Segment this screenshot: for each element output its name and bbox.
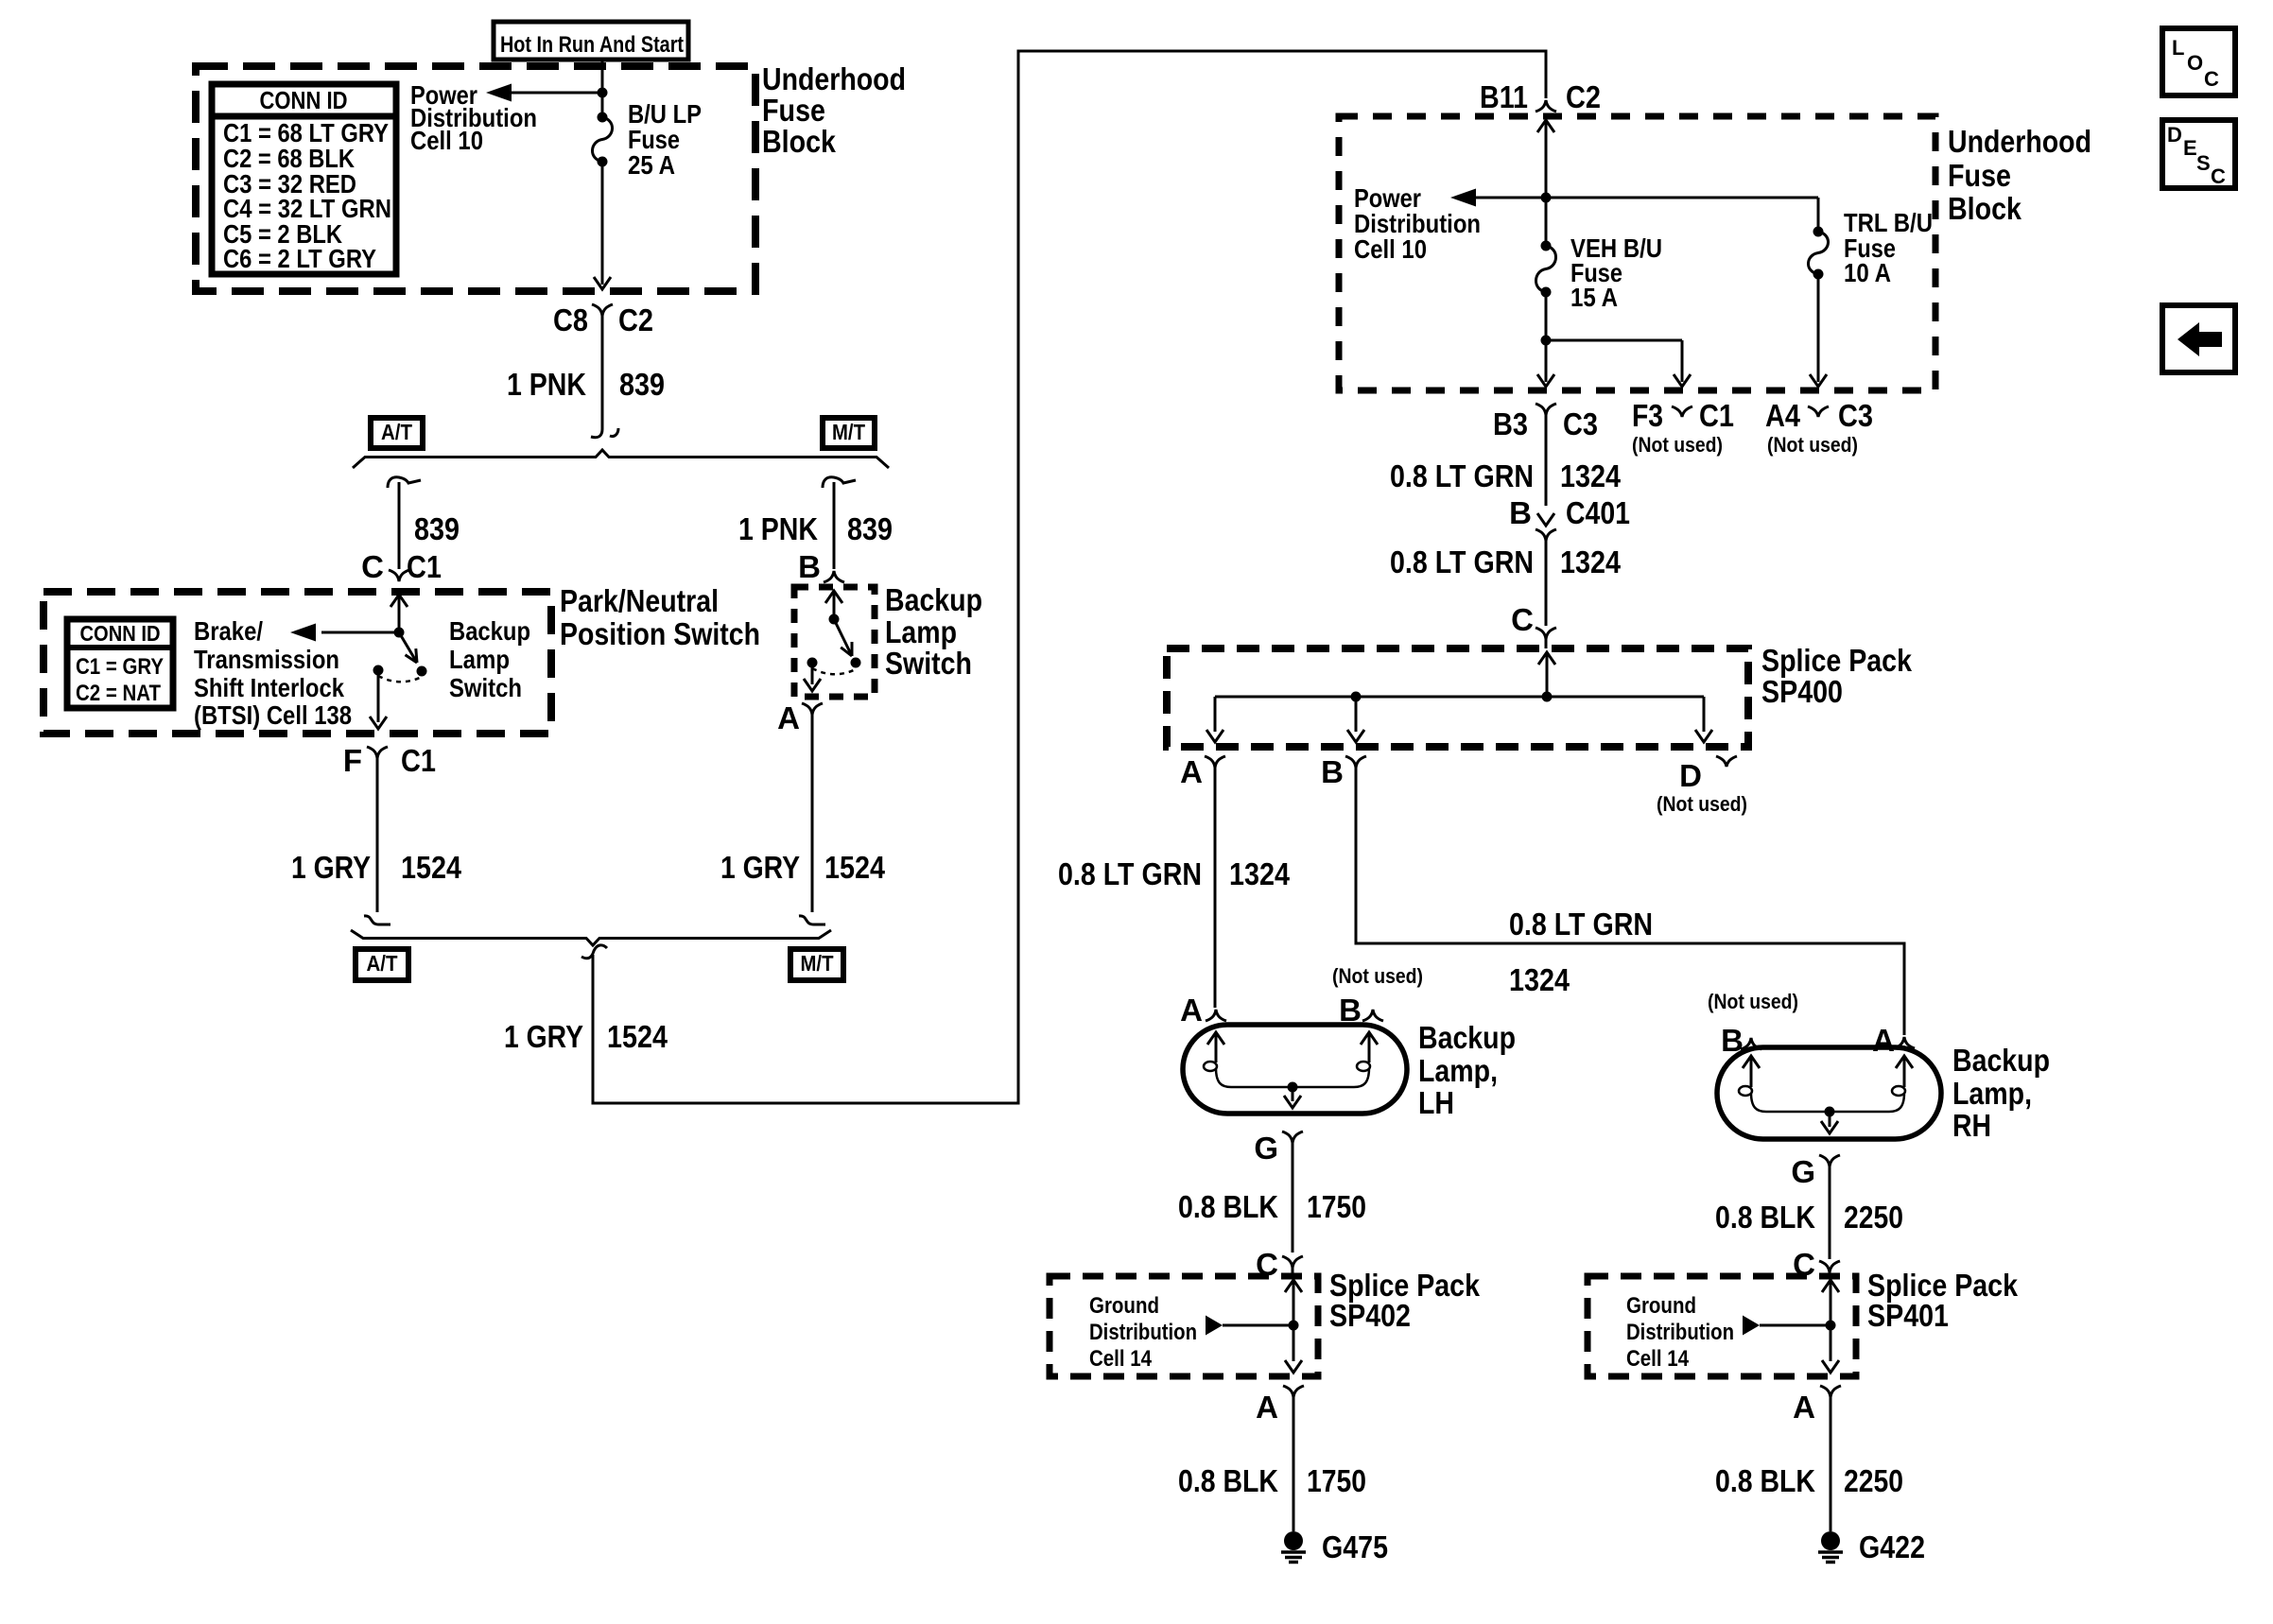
svg-text:SP401: SP401 <box>1867 1298 1949 1333</box>
svg-text:(Not used): (Not used) <box>1708 990 1798 1013</box>
svg-text:(BTSI) Cell 138: (BTSI) Cell 138 <box>194 700 352 730</box>
svg-text:25 A: 25 A <box>628 150 675 180</box>
svg-text:C3: C3 <box>1838 398 1873 433</box>
svg-text:Backup: Backup <box>449 616 530 646</box>
svg-text:CONN ID: CONN ID <box>260 86 348 114</box>
svg-text:1750: 1750 <box>1307 1463 1366 1498</box>
svg-text:A: A <box>1180 754 1203 789</box>
svg-text:1 PNK: 1 PNK <box>507 367 586 402</box>
svg-text:Fuse: Fuse <box>762 93 825 128</box>
svg-text:1 GRY: 1 GRY <box>504 1019 583 1054</box>
svg-text:F: F <box>343 743 362 778</box>
svg-text:D: D <box>2167 123 2182 147</box>
svg-text:A: A <box>777 700 800 735</box>
svg-text:C1 = GRY: C1 = GRY <box>76 654 164 680</box>
svg-text:Underhood: Underhood <box>1948 124 2091 159</box>
svg-text:1 GRY: 1 GRY <box>291 850 371 885</box>
svg-text:B11: B11 <box>1480 79 1528 114</box>
svg-text:B3: B3 <box>1493 406 1528 441</box>
svg-text:839: 839 <box>414 511 460 546</box>
svg-text:A/T: A/T <box>367 951 398 976</box>
svg-text:Lamp: Lamp <box>885 614 957 649</box>
svg-text:0.8 LT GRN: 0.8 LT GRN <box>1509 907 1653 942</box>
svg-text:C1: C1 <box>1699 398 1734 433</box>
svg-text:A: A <box>1872 1023 1895 1058</box>
svg-text:Block: Block <box>762 124 837 159</box>
svg-text:C: C <box>361 549 384 584</box>
svg-text:1324: 1324 <box>1229 856 1291 891</box>
svg-text:C6 = 2 LT GRY: C6 = 2 LT GRY <box>223 244 376 273</box>
svg-text:10 A: 10 A <box>1844 258 1891 287</box>
svg-text:C2: C2 <box>1566 79 1601 114</box>
svg-text:E: E <box>2183 136 2197 160</box>
svg-text:1324: 1324 <box>1560 544 1622 579</box>
svg-text:B: B <box>1321 754 1344 789</box>
svg-text:L: L <box>2172 36 2184 60</box>
svg-text:Ground: Ground <box>1089 1293 1159 1319</box>
svg-text:0.8 BLK: 0.8 BLK <box>1178 1189 1278 1224</box>
svg-text:M/T: M/T <box>801 951 834 976</box>
svg-text:Park/Neutral: Park/Neutral <box>560 583 719 618</box>
svg-text:0.8 LT GRN: 0.8 LT GRN <box>1058 856 1202 891</box>
svg-text:F3: F3 <box>1632 398 1663 433</box>
svg-text:RH: RH <box>1952 1108 1991 1143</box>
svg-text:O: O <box>2187 51 2203 75</box>
svg-text:C2: C2 <box>618 302 653 337</box>
svg-text:Backup: Backup <box>1952 1043 2050 1078</box>
svg-text:1 GRY: 1 GRY <box>720 850 800 885</box>
svg-text:Hot In Run And Start: Hot In Run And Start <box>500 32 684 58</box>
svg-text:(Not used): (Not used) <box>1632 433 1723 457</box>
svg-text:Block: Block <box>1948 191 2022 226</box>
svg-text:C3: C3 <box>1563 406 1598 441</box>
svg-text:A/T: A/T <box>381 420 412 444</box>
svg-text:1750: 1750 <box>1307 1189 1366 1224</box>
svg-text:G: G <box>1791 1154 1815 1189</box>
svg-text:1324: 1324 <box>1509 962 1570 997</box>
svg-text:1524: 1524 <box>607 1019 668 1054</box>
svg-text:G: G <box>1254 1131 1278 1166</box>
svg-text:Backup: Backup <box>885 582 982 617</box>
svg-text:Fuse: Fuse <box>1948 158 2011 193</box>
svg-text:1324: 1324 <box>1560 458 1622 493</box>
svg-text:A: A <box>1256 1390 1278 1425</box>
svg-text:Lamp: Lamp <box>449 645 510 674</box>
svg-text:Position Switch: Position Switch <box>560 616 760 651</box>
svg-text:Distribution: Distribution <box>1089 1320 1197 1345</box>
svg-text:SP402: SP402 <box>1329 1298 1411 1333</box>
svg-text:C: C <box>2204 67 2219 91</box>
svg-text:1524: 1524 <box>401 850 462 885</box>
svg-text:CONN ID: CONN ID <box>80 621 161 646</box>
svg-text:Lamp,: Lamp, <box>1418 1053 1498 1088</box>
svg-text:C2 = NAT: C2 = NAT <box>76 681 161 706</box>
svg-text:Backup: Backup <box>1418 1020 1516 1055</box>
svg-text:Switch: Switch <box>885 646 972 681</box>
svg-text:15 A: 15 A <box>1570 283 1618 312</box>
svg-text:1 PNK: 1 PNK <box>738 511 818 546</box>
svg-text:S: S <box>2196 151 2211 175</box>
svg-text:A: A <box>1180 993 1203 1028</box>
svg-text:M/T: M/T <box>832 420 865 444</box>
svg-text:A: A <box>1793 1390 1815 1425</box>
svg-text:1524: 1524 <box>824 850 886 885</box>
svg-text:SP400: SP400 <box>1761 674 1843 709</box>
svg-text:Ground: Ground <box>1626 1293 1696 1319</box>
svg-text:Lamp,: Lamp, <box>1952 1076 2032 1111</box>
svg-text:C8: C8 <box>553 302 588 337</box>
svg-text:0.8 LT GRN: 0.8 LT GRN <box>1390 544 1534 579</box>
svg-text:Cell 14: Cell 14 <box>1626 1346 1690 1372</box>
svg-text:B: B <box>1509 495 1532 530</box>
svg-text:A4: A4 <box>1765 398 1801 433</box>
svg-text:C401: C401 <box>1566 495 1630 530</box>
svg-text:G422: G422 <box>1859 1529 1925 1564</box>
svg-text:(Not used): (Not used) <box>1767 433 1858 457</box>
svg-text:Cell 10: Cell 10 <box>410 126 483 155</box>
svg-text:0.8 BLK: 0.8 BLK <box>1178 1463 1278 1498</box>
svg-text:0.8 LT GRN: 0.8 LT GRN <box>1390 458 1534 493</box>
svg-text:C1: C1 <box>407 549 442 584</box>
svg-text:B: B <box>798 549 821 584</box>
svg-text:C1: C1 <box>401 743 436 778</box>
svg-text:Distribution: Distribution <box>1626 1320 1734 1345</box>
svg-text:C: C <box>2211 164 2226 188</box>
svg-text:839: 839 <box>619 367 665 402</box>
svg-text:(Not used): (Not used) <box>1657 792 1747 816</box>
svg-text:0.8 BLK: 0.8 BLK <box>1715 1200 1815 1235</box>
svg-text:Transmission: Transmission <box>194 645 339 674</box>
svg-text:LH: LH <box>1418 1085 1454 1120</box>
svg-text:Underhood: Underhood <box>762 61 906 96</box>
svg-text:2250: 2250 <box>1844 1200 1903 1235</box>
svg-text:Shift Interlock: Shift Interlock <box>194 673 344 702</box>
svg-text:Brake/: Brake/ <box>194 616 263 646</box>
svg-text:(Not used): (Not used) <box>1332 964 1423 988</box>
svg-text:Switch: Switch <box>449 673 522 702</box>
svg-text:Cell 10: Cell 10 <box>1354 234 1427 264</box>
svg-text:Splice Pack: Splice Pack <box>1761 643 1913 678</box>
svg-text:839: 839 <box>847 511 893 546</box>
svg-text:C: C <box>1511 602 1534 637</box>
svg-text:2250: 2250 <box>1844 1463 1903 1498</box>
svg-text:0.8 BLK: 0.8 BLK <box>1715 1463 1815 1498</box>
svg-text:D: D <box>1679 758 1702 793</box>
svg-text:G475: G475 <box>1322 1529 1388 1564</box>
svg-text:Cell 14: Cell 14 <box>1089 1346 1153 1372</box>
